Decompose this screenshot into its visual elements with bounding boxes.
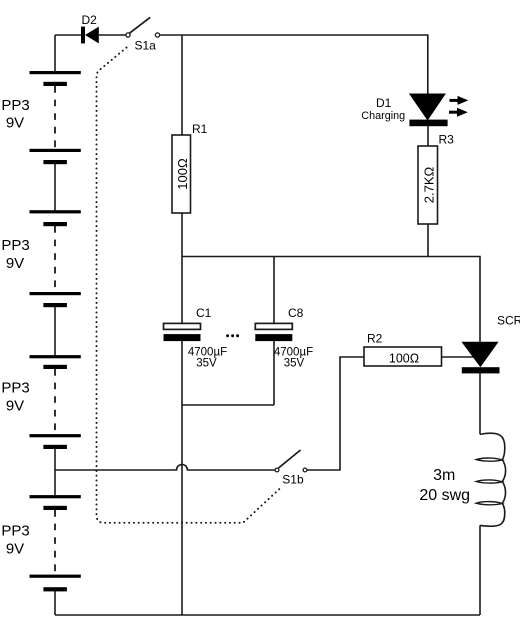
svg-text:PP3: PP3 [1, 380, 29, 397]
svg-text:9V: 9V [6, 541, 24, 558]
svg-text:9V: 9V [6, 255, 24, 272]
svg-text:PP3: PP3 [1, 237, 29, 254]
svg-text:9V: 9V [6, 115, 24, 132]
svg-text:2.7KΩ: 2.7KΩ [422, 166, 437, 203]
svg-text:S1b: S1b [282, 473, 304, 487]
svg-text:3m: 3m [433, 467, 455, 484]
svg-text:C1: C1 [196, 306, 212, 320]
svg-text:Charging: Charging [361, 110, 405, 122]
svg-text:R1: R1 [192, 122, 208, 136]
svg-text:100Ω: 100Ω [175, 158, 190, 190]
svg-text:PP3: PP3 [1, 523, 29, 540]
svg-text:100Ω: 100Ω [389, 351, 419, 365]
svg-text:PP3: PP3 [1, 97, 29, 114]
svg-text:35V: 35V [196, 358, 217, 370]
svg-text:D2: D2 [82, 13, 98, 27]
svg-text:35V: 35V [284, 358, 305, 370]
svg-text:C8: C8 [288, 306, 304, 320]
svg-text:20 swg: 20 swg [419, 487, 470, 504]
svg-text:9V: 9V [6, 398, 24, 415]
svg-text:S1a: S1a [135, 38, 157, 52]
svg-text:SCR: SCR [497, 314, 520, 328]
svg-text:R3: R3 [439, 132, 455, 146]
svg-text:R2: R2 [367, 332, 383, 346]
svg-text:D1: D1 [376, 96, 392, 110]
